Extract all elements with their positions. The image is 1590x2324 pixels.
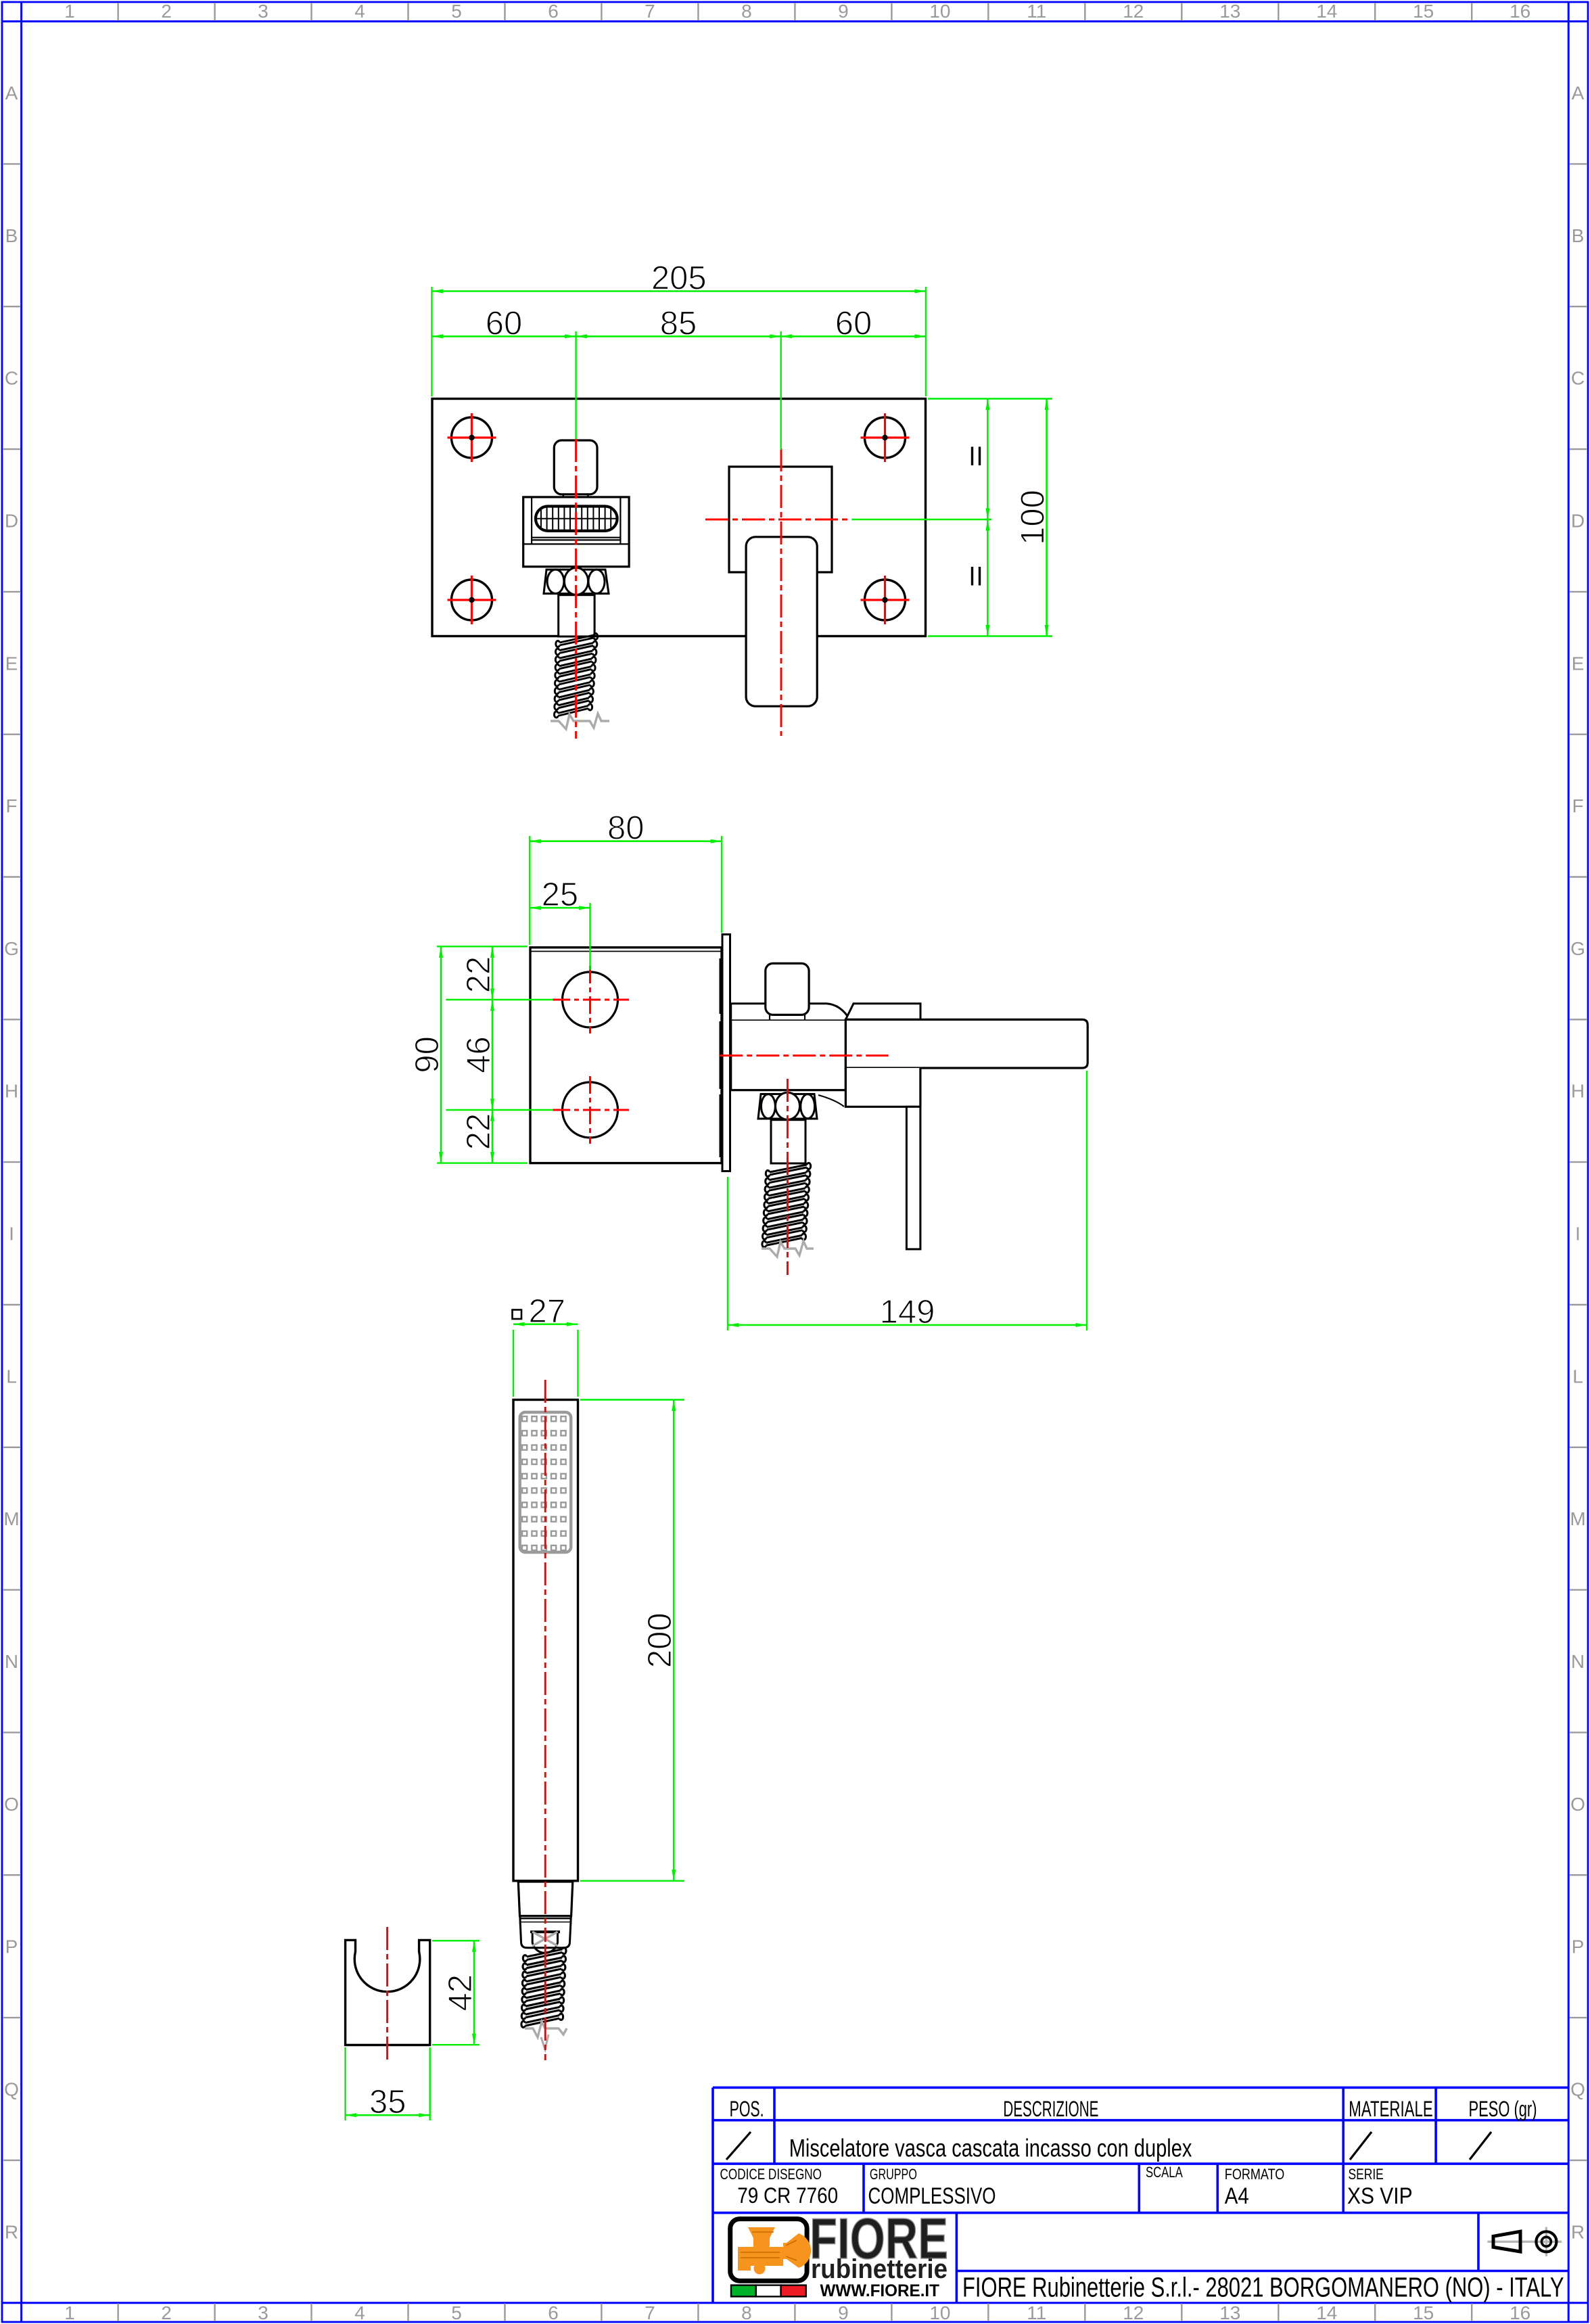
svg-text:6: 6 [548, 2302, 559, 2323]
hose insert with cross [530, 1932, 560, 1953]
svg-text:27: 27 [529, 1293, 566, 1330]
svg-text:9: 9 [838, 1, 849, 22]
dimension 200 [580, 1399, 684, 1400]
svg-text:2: 2 [161, 2302, 172, 2323]
dimension 35 [344, 2047, 346, 2120]
handle base (side view) [731, 1004, 850, 1020]
hose break mark (side view) [762, 1241, 814, 1257]
svg-text:3: 3 [258, 2302, 268, 2323]
valve body (side view) [731, 1019, 846, 1090]
svg-text:H: H [1571, 1081, 1585, 1102]
svg-text:I: I [1575, 1224, 1581, 1245]
svg-text:14: 14 [1316, 2302, 1337, 2323]
handshower cone [518, 1882, 573, 1916]
wall plate (side view) [722, 935, 730, 1171]
svg-text:205: 205 [651, 260, 707, 297]
svg-text:R: R [1571, 2221, 1585, 2242]
handshower spray plate [520, 1412, 571, 1552]
svg-text:9: 9 [838, 2302, 849, 2323]
svg-text:6: 6 [548, 1, 559, 22]
svg-text:149: 149 [880, 1294, 935, 1330]
svg-text:MATERIALE: MATERIALE [1349, 2097, 1432, 2121]
svg-text:E: E [5, 653, 18, 674]
svg-text:13: 13 [1219, 1, 1240, 22]
mounting hole top-left [448, 413, 496, 462]
svg-text:GRUPPO: GRUPPO [870, 2166, 917, 2183]
spout wall box (front) [729, 467, 832, 572]
spout centerline vertical [780, 448, 782, 736]
handshower lower fitting [520, 1922, 571, 1947]
svg-text:11: 11 [1027, 2302, 1046, 2323]
dimensions 22 / 46 / 22 [446, 999, 553, 1000]
dimension square-27 [513, 1330, 514, 1397]
svg-text:POS.: POS. [730, 2097, 764, 2121]
svg-text:P: P [1572, 1936, 1585, 1957]
handshower centerline [544, 1380, 546, 1942]
svg-text:CODICE DISEGNO: CODICE DISEGNO [720, 2166, 822, 2183]
valve centerline horizontal (side view) [720, 1054, 888, 1056]
svg-text:25: 25 [542, 877, 579, 913]
diverter slot grille [536, 506, 617, 532]
svg-text:O: O [4, 1794, 19, 1815]
svg-text:1: 1 [64, 1, 75, 22]
svg-text:4: 4 [354, 2302, 365, 2323]
title block grid [713, 2087, 1568, 2302]
svg-text:N: N [1571, 1651, 1585, 1672]
handshower body [513, 1400, 578, 1881]
equal mark upper [971, 447, 973, 466]
svg-text:L: L [6, 1366, 17, 1387]
svg-text:10: 10 [929, 2302, 950, 2323]
svg-text:FIORE Rubinetterie S.r.l.- 280: FIORE Rubinetterie S.r.l.- 28021 BORGOMA… [962, 2272, 1564, 2303]
FIORE logo faucet box [730, 2219, 807, 2281]
svg-text:12: 12 [1123, 2302, 1144, 2323]
diverter handle knob (front) [554, 440, 597, 494]
spout centerline horizontal [705, 519, 851, 521]
hose break mark (front) [551, 714, 609, 729]
svg-text:M: M [1570, 1508, 1585, 1529]
svg-text:I: I [9, 1224, 14, 1245]
svg-text:DESCRIZIONE: DESCRIZIONE [1003, 2097, 1098, 2121]
equal mark lower [971, 567, 973, 586]
dimension 205 [431, 287, 432, 396]
svg-text:C: C [5, 368, 18, 389]
inlet port upper [553, 966, 629, 1033]
svg-text:F: F [1572, 795, 1583, 816]
svg-text:3: 3 [258, 1, 268, 22]
svg-text:85: 85 [660, 305, 697, 342]
wall holder bracket [346, 1940, 430, 2045]
svg-text:8: 8 [741, 1, 752, 22]
mounting hole bottom-right [861, 576, 910, 624]
svg-text:5: 5 [451, 2302, 462, 2323]
diverter cap (side view) [845, 1004, 920, 1020]
svg-text:B: B [5, 225, 18, 246]
svg-text:G: G [1570, 938, 1585, 959]
first-angle projection symbol [1487, 2227, 1562, 2256]
svg-text:10: 10 [929, 1, 950, 22]
svg-text:4: 4 [354, 1, 365, 22]
svg-text:90: 90 [409, 1036, 446, 1073]
svg-text:11: 11 [1027, 1, 1046, 22]
svg-text:1: 1 [64, 2302, 75, 2323]
svg-text:L: L [1572, 1366, 1583, 1387]
svg-text:46: 46 [461, 1036, 497, 1073]
title block header texts [720, 2097, 1564, 2303]
svg-text:22: 22 [461, 956, 497, 994]
hose fitting (front) [559, 595, 594, 636]
svg-text:2: 2 [161, 1, 172, 22]
svg-text:Q: Q [4, 2079, 19, 2100]
svg-text:COMPLESSIVO: COMPLESSIVO [868, 2183, 996, 2209]
svg-text:42: 42 [442, 1974, 479, 2012]
drawing area inner border [20, 2, 22, 2322]
svg-text:60: 60 [486, 305, 523, 342]
holder centerline [386, 1927, 388, 2060]
dimension 80 [529, 836, 530, 945]
handshower lower centerline [544, 1945, 546, 2060]
spout front rod [906, 1107, 920, 1249]
flexible hose coils (side view) [762, 1163, 811, 1247]
svg-text:7: 7 [645, 2302, 655, 2323]
svg-text:79 CR 7760: 79 CR 7760 [737, 2183, 838, 2208]
svg-text:A4: A4 [1225, 2183, 1249, 2209]
MATERIALE slash [1350, 2132, 1372, 2160]
svg-text:14: 14 [1316, 1, 1337, 22]
mounting hole top-right [861, 413, 910, 462]
svg-text:16: 16 [1510, 2302, 1530, 2323]
svg-text:O: O [1570, 1794, 1585, 1815]
svg-text:200: 200 [642, 1612, 678, 1668]
dimension 60 / 85 / 60 [575, 331, 576, 439]
svg-text:D: D [1571, 511, 1585, 532]
svg-text:H: H [5, 1081, 18, 1102]
svg-text:15: 15 [1413, 1, 1434, 22]
dimension 149 [727, 1177, 728, 1330]
dimension 42 [432, 1940, 480, 1941]
svg-text:A: A [5, 83, 18, 103]
svg-text:100: 100 [1015, 490, 1052, 545]
svg-text:F: F [5, 795, 17, 816]
dimension 90 [437, 946, 528, 947]
svg-text:80: 80 [607, 810, 645, 847]
hose centerline vertical (side view) [787, 1079, 789, 1275]
svg-text:12: 12 [1123, 1, 1144, 22]
flexible hose coils (front) [554, 633, 597, 718]
spout lower housing (side view) [845, 1068, 920, 1107]
diverter centerline (front view) [575, 439, 577, 739]
svg-text:N: N [5, 1651, 18, 1672]
mounting hole bottom-left [448, 576, 496, 624]
diverter escutcheon box [523, 497, 629, 567]
svg-text:7: 7 [645, 1, 655, 22]
svg-text:8: 8 [741, 2302, 752, 2323]
svg-text:D: D [5, 511, 18, 532]
svg-text:SCALA: SCALA [1146, 2164, 1183, 2181]
svg-text:C: C [1571, 368, 1585, 389]
handle knob (side view) [766, 963, 809, 1015]
equal-division dimension lines [987, 399, 989, 636]
italian flag [731, 2285, 806, 2297]
svg-text:15: 15 [1413, 2302, 1434, 2323]
inlet port lower [553, 1076, 629, 1144]
svg-text:G: G [4, 938, 19, 959]
knob neck [563, 494, 564, 497]
svg-text:WWW.FIORE.IT: WWW.FIORE.IT [820, 2281, 940, 2300]
svg-text:16: 16 [1510, 1, 1530, 22]
svg-text:35: 35 [369, 2084, 406, 2120]
svg-text:Miscelatore vasca cascata inca: Miscelatore vasca cascata incasso con du… [789, 2135, 1192, 2162]
valve nut (side view) [758, 1092, 844, 1119]
svg-text:5: 5 [451, 1, 462, 22]
svg-text:P: P [5, 1936, 18, 1957]
spout tube (side view) [845, 1019, 1088, 1068]
diverter nut (front) [544, 567, 609, 595]
svg-text:60: 60 [835, 305, 872, 342]
wall plate front view [432, 399, 926, 636]
svg-text:E: E [1572, 653, 1585, 674]
dimension 100 [928, 398, 1052, 399]
svg-text:A: A [1572, 83, 1585, 103]
body edge segments behind plate [720, 958, 722, 1014]
svg-text:B: B [1572, 225, 1585, 246]
handshower fitting rings [520, 1918, 571, 1919]
svg-text:PESO (gr): PESO (gr) [1469, 2097, 1537, 2121]
POS slash [726, 2132, 751, 2160]
svg-text:13: 13 [1219, 2302, 1240, 2323]
hose fitting (side view) [771, 1120, 805, 1163]
svg-text:M: M [3, 1508, 19, 1529]
svg-text:rubinetterie: rubinetterie [811, 2254, 948, 2284]
in-wall body (side view) [530, 948, 722, 1163]
svg-text:R: R [5, 2221, 18, 2242]
svg-text:Q: Q [1570, 2079, 1585, 2100]
PESO slash [1470, 2132, 1491, 2160]
svg-text:FORMATO: FORMATO [1225, 2166, 1285, 2183]
handshower hose break mark [525, 2022, 567, 2037]
svg-text:SERIE: SERIE [1349, 2166, 1384, 2183]
svg-text:22: 22 [461, 1113, 497, 1151]
faucet icon [738, 2227, 811, 2275]
svg-text:XS VIP: XS VIP [1347, 2183, 1413, 2209]
spout tongue (front) [746, 537, 817, 706]
handshower hose coils [521, 1948, 566, 2028]
dimension 25 [589, 903, 590, 970]
